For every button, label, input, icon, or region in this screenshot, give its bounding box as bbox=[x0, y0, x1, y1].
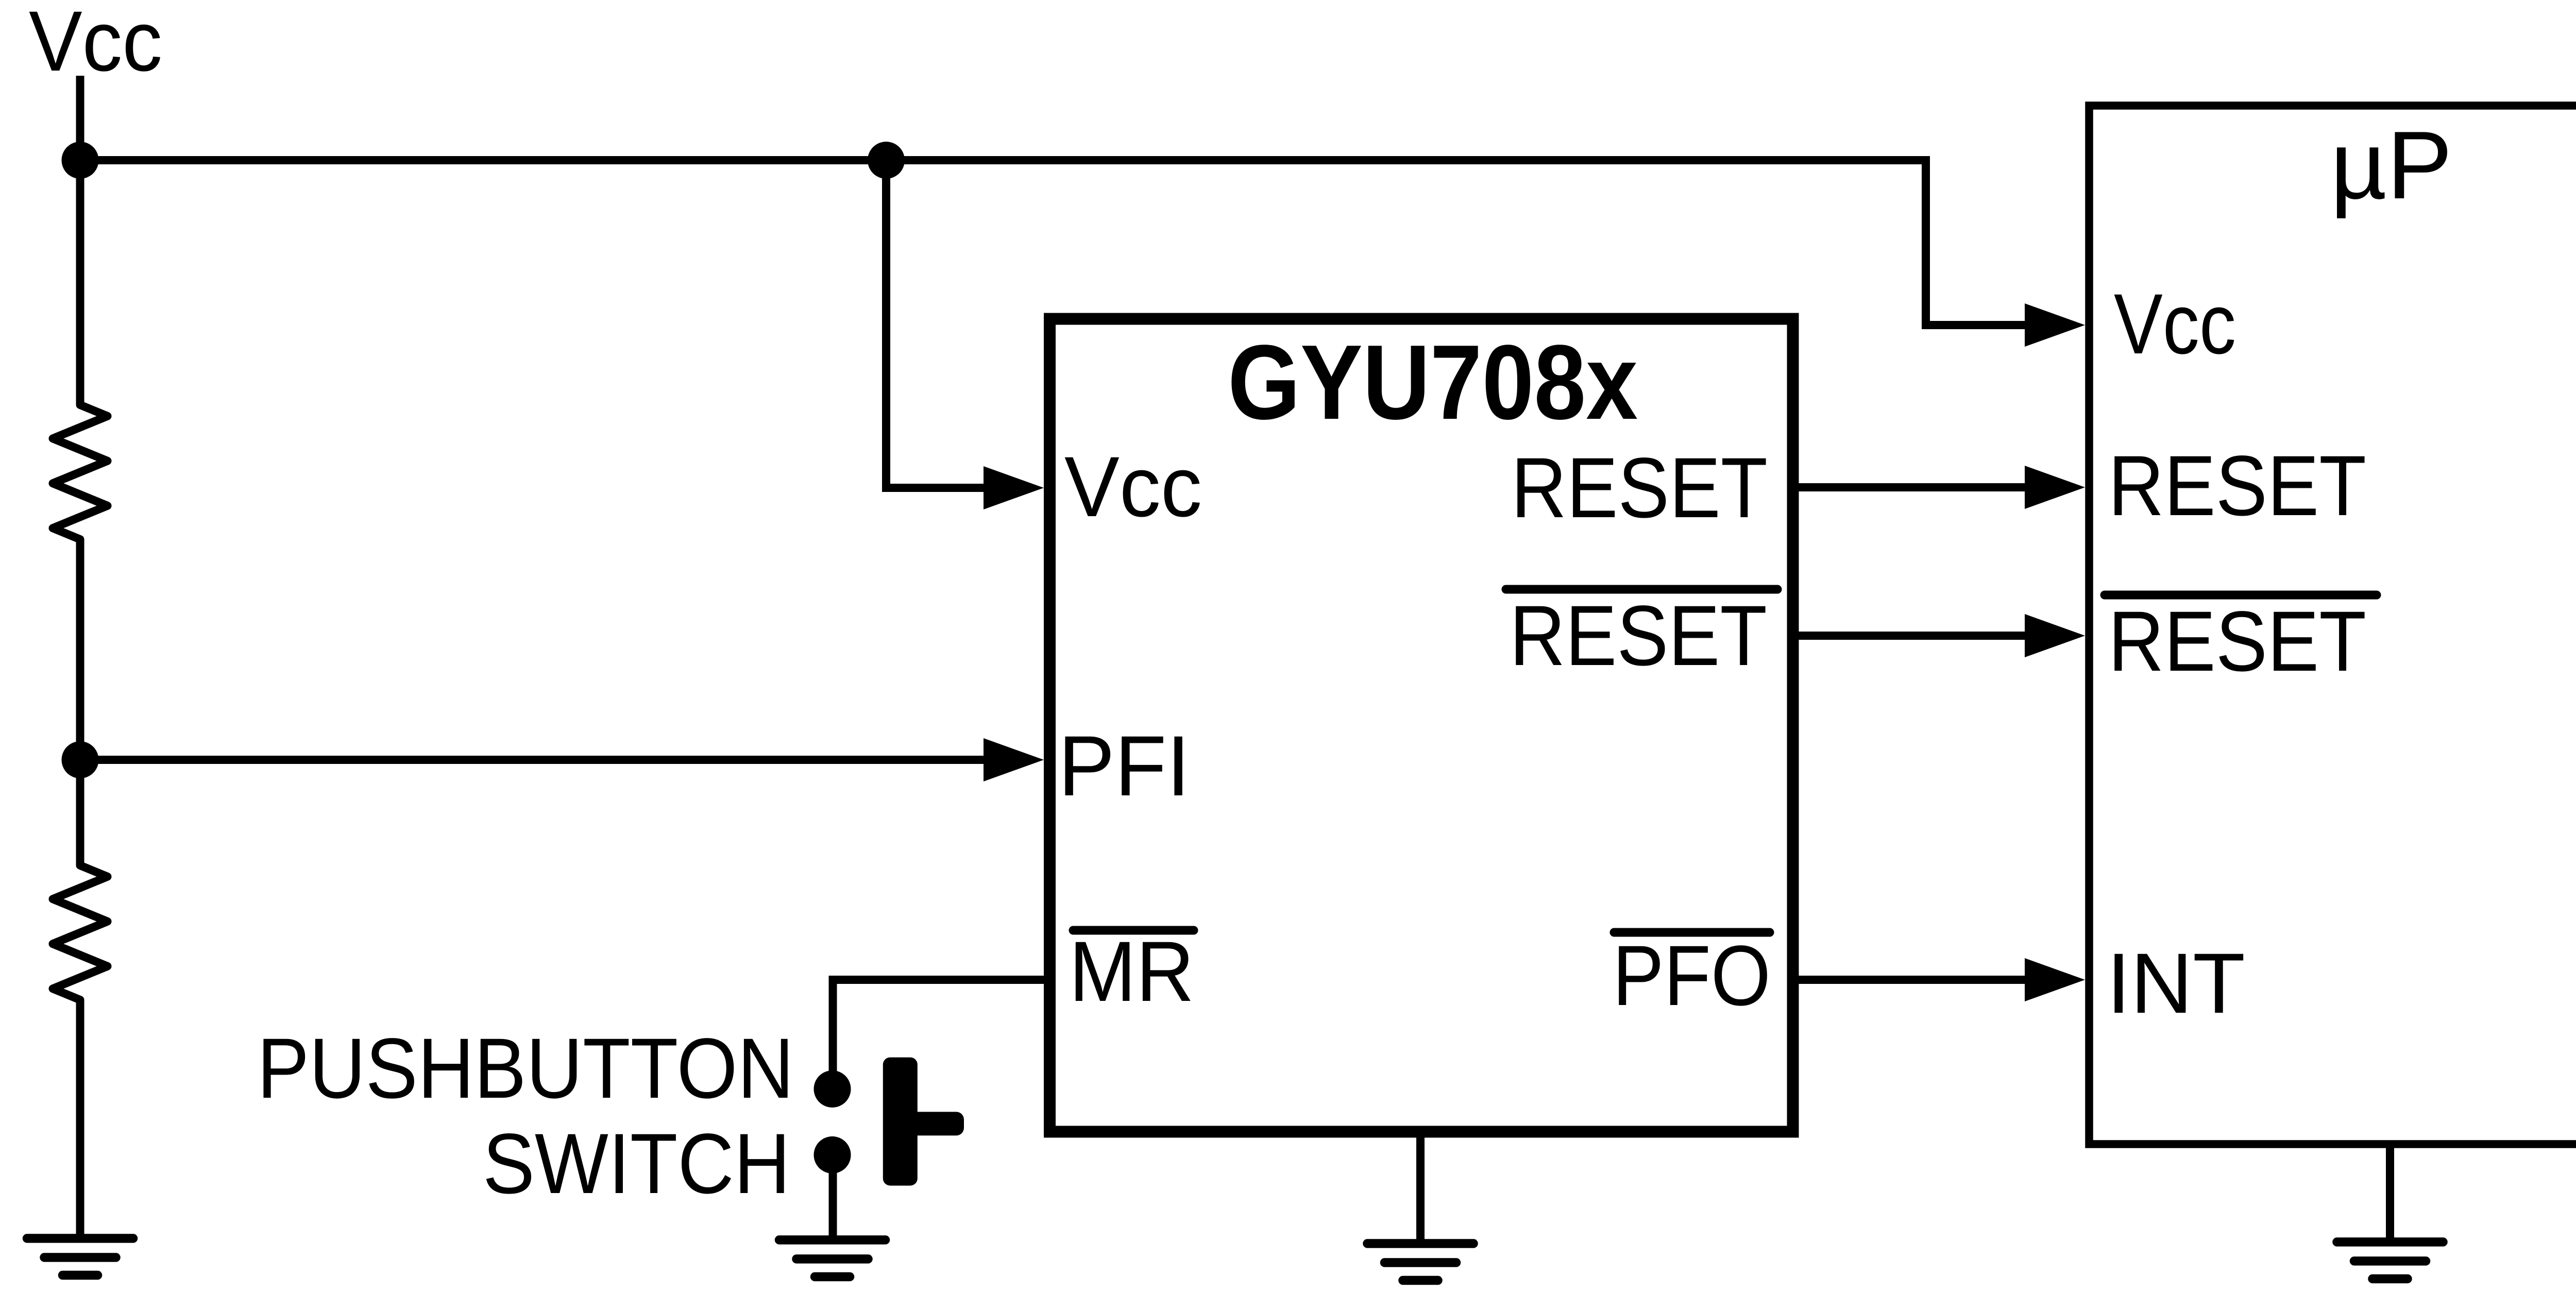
svg-text:RESET: RESET bbox=[2108, 594, 2366, 689]
svg-text:Vcc: Vcc bbox=[29, 0, 162, 89]
svg-text:PFI: PFI bbox=[1058, 719, 1190, 814]
svg-text:RESET: RESET bbox=[2108, 438, 2366, 534]
svg-text:Vcc: Vcc bbox=[1064, 439, 1202, 535]
svg-text:Vcc: Vcc bbox=[2114, 277, 2236, 372]
svg-text:GYU708x: GYU708x bbox=[1228, 323, 1638, 441]
svg-text:RESET: RESET bbox=[1510, 588, 1767, 684]
svg-text:SWITCH: SWITCH bbox=[483, 1116, 790, 1212]
svg-text:INT: INT bbox=[2107, 936, 2245, 1031]
svg-text:µP: µP bbox=[2330, 111, 2452, 219]
svg-text:MR: MR bbox=[1069, 924, 1194, 1019]
svg-text:RESET: RESET bbox=[1511, 440, 1768, 536]
svg-text:PFO: PFO bbox=[1613, 928, 1771, 1024]
svg-text:PUSHBUTTON: PUSHBUTTON bbox=[257, 1021, 794, 1116]
